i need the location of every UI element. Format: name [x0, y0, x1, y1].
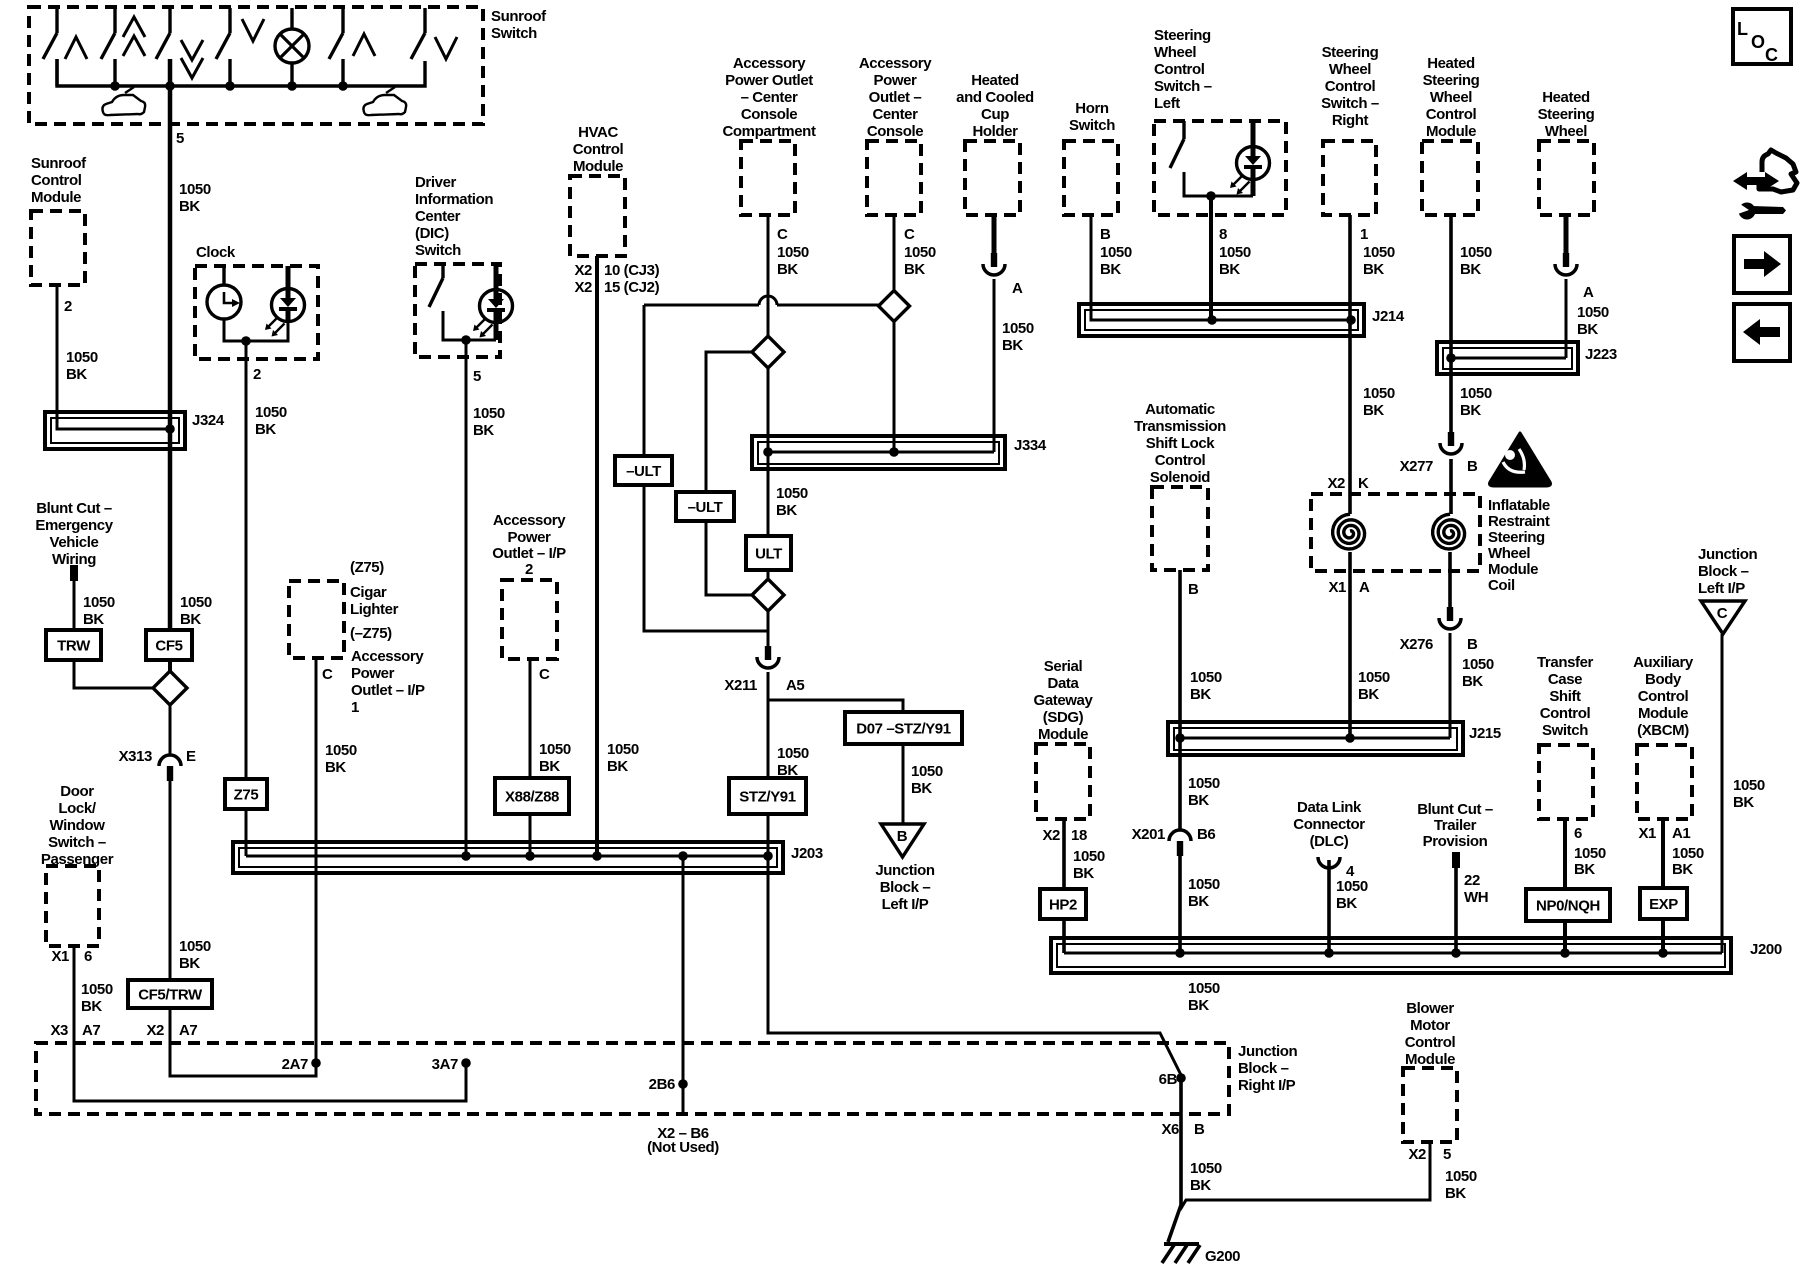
wire - horn switch to J214	[1091, 215, 1352, 320]
svg-text:BK: BK	[180, 611, 201, 628]
svg-text:BK: BK	[179, 955, 200, 972]
svg-text:Control: Control	[1426, 106, 1477, 123]
svg-text:15 (CJ2): 15 (CJ2)	[604, 279, 660, 296]
wire - SWCS right through J214 to coil	[1348, 215, 1352, 514]
svg-text:BK: BK	[1002, 337, 1023, 354]
svg-text:C: C	[1717, 605, 1728, 622]
wire - SWCS left pin 8 to J214	[1209, 196, 1213, 320]
cigar lighter dashed box	[289, 581, 344, 658]
DIC switch contact	[441, 264, 444, 278]
svg-text:X1: X1	[1638, 825, 1656, 842]
svg-text:Control: Control	[1540, 705, 1591, 722]
svg-text:B: B	[897, 828, 908, 845]
svg-text:(SDG): (SDG)	[1043, 709, 1084, 726]
svg-text:22: 22	[1464, 872, 1480, 889]
svg-text:5: 5	[473, 368, 481, 385]
svg-text:Blunt Cut –: Blunt Cut –	[36, 500, 112, 517]
svg-text:C: C	[904, 226, 915, 243]
svg-text:Outlet – I/P: Outlet – I/P	[492, 545, 566, 562]
svg-text:Switch: Switch	[491, 25, 537, 42]
svg-text:Control: Control	[1638, 688, 1689, 705]
SDG dashed box	[1036, 744, 1090, 819]
fuse label -ULT lower	[676, 492, 734, 521]
svg-text:Console: Console	[741, 106, 797, 123]
svg-text:Block –: Block –	[880, 879, 931, 896]
svg-text:C: C	[539, 666, 550, 683]
svg-text:X201: X201	[1132, 826, 1165, 843]
wire - DIC switch pin 5 down to J203	[465, 340, 468, 856]
svg-text:Power: Power	[873, 72, 917, 89]
svg-text:2: 2	[525, 561, 533, 578]
svg-text:Junction: Junction	[875, 862, 935, 879]
LOC reference box	[1733, 9, 1791, 64]
svg-text:O: O	[1751, 32, 1765, 52]
svg-text:–ULT: –ULT	[626, 463, 661, 480]
svg-text:Heated: Heated	[971, 72, 1019, 89]
wire - X313 to CF5/TRW fuse	[169, 781, 172, 980]
wire - blower module to ground wire	[1180, 1142, 1430, 1210]
svg-text:C: C	[322, 666, 333, 683]
J334 junction dots	[763, 447, 773, 457]
svg-text:J200: J200	[1750, 941, 1782, 958]
J200 junction dots	[1175, 948, 1185, 958]
DIC internal junction dot	[461, 335, 471, 345]
wire - SDG to HP2	[1062, 819, 1066, 889]
svg-text:1050: 1050	[1190, 669, 1222, 686]
svg-text:Center: Center	[872, 106, 918, 123]
right clockspring coil	[1433, 514, 1465, 549]
connector X276	[1447, 607, 1453, 621]
svg-text:(Z75): (Z75)	[350, 559, 384, 576]
wire - CF5/TRW into junction block to 2A7	[170, 1008, 316, 1076]
wire - transfer case to NP0/NQH	[1563, 819, 1567, 889]
wire - diamond to ULT	[767, 368, 770, 452]
heated steering wheel dashed box	[1539, 141, 1594, 215]
J214 junction dots	[1207, 315, 1217, 325]
svg-text:Horn: Horn	[1075, 100, 1109, 117]
wire - right coil to X276	[1448, 552, 1452, 607]
svg-text:Switch: Switch	[1542, 722, 1588, 739]
junction block left I/P triangle C	[1701, 601, 1745, 634]
svg-text:A: A	[1012, 280, 1023, 297]
splice diamond - acc outlet CCC	[752, 336, 784, 368]
svg-text:EXP: EXP	[1649, 896, 1678, 913]
svg-text:Transmission: Transmission	[1134, 418, 1226, 435]
wire - solenoid to J215	[1178, 570, 1182, 738]
svg-text:J203: J203	[791, 845, 823, 862]
svg-text:X6: X6	[1161, 1121, 1179, 1138]
sunroof switch internal bus wire	[57, 59, 425, 86]
svg-text:1050: 1050	[1577, 304, 1609, 321]
svg-text:1050: 1050	[179, 938, 211, 955]
svg-text:Accessory: Accessory	[493, 512, 566, 529]
svg-text:1050: 1050	[777, 745, 809, 762]
svg-text:X1: X1	[1328, 579, 1346, 596]
svg-text:Control: Control	[1154, 61, 1205, 78]
chevron up 5	[353, 34, 375, 56]
chevron down 4	[242, 19, 264, 41]
XBCM dashed box	[1637, 745, 1692, 819]
door lock dashed box	[46, 866, 99, 946]
svg-text:BK: BK	[1190, 1177, 1211, 1194]
svg-text:STZ/Y91: STZ/Y91	[739, 789, 795, 806]
ATSLCS dashed box	[1152, 487, 1208, 570]
svg-text:K: K	[1358, 475, 1369, 492]
ground symbol G200	[1164, 1242, 1199, 1246]
connector J203	[233, 842, 783, 873]
svg-text:1050: 1050	[911, 763, 943, 780]
svg-text:D07 –STZ/Y91: D07 –STZ/Y91	[856, 721, 950, 738]
HSWCM dashed box	[1422, 141, 1478, 215]
svg-text:Cup: Cup	[981, 106, 1009, 123]
svg-text:Provision: Provision	[1423, 833, 1488, 850]
fuse label STZ/Y91	[729, 778, 806, 814]
svg-text:B: B	[1467, 636, 1478, 653]
svg-text:BK: BK	[607, 758, 628, 775]
clock dashed box	[195, 266, 318, 359]
svg-text:BK: BK	[776, 502, 797, 519]
sunroof switch dashed box	[29, 7, 483, 124]
connector J324	[45, 412, 185, 449]
svg-text:Control: Control	[1325, 78, 1376, 95]
svg-text:18: 18	[1071, 827, 1087, 844]
connector X313 pin E	[159, 755, 181, 766]
svg-text:E: E	[186, 748, 196, 765]
SWCS left dashed box	[1154, 121, 1286, 215]
cup holder dashed box	[965, 141, 1020, 215]
wire - X211 down and branch	[767, 672, 770, 779]
switch contact 5	[341, 8, 344, 33]
wire - CF5 to splice diamond	[168, 660, 172, 671]
clock symbol	[207, 285, 241, 319]
2A7 pin dot and label	[311, 1058, 321, 1068]
wire - sunroof control module to J324	[57, 285, 170, 429]
prev-page arrow box	[1734, 304, 1790, 361]
svg-text:Information: Information	[415, 191, 493, 208]
svg-text:Blower: Blower	[1406, 1000, 1454, 1017]
svg-text:Vehicle: Vehicle	[50, 534, 99, 551]
car icon left	[102, 95, 145, 115]
svg-text:BK: BK	[255, 421, 276, 438]
switch contact 6	[423, 8, 426, 33]
sunroof control module dashed box	[31, 211, 85, 285]
splice diamond CF5/TRW	[153, 671, 187, 705]
svg-text:Compartment: Compartment	[722, 123, 816, 140]
svg-text:BK: BK	[911, 780, 932, 797]
3A7 pin dot and label	[461, 1058, 471, 1068]
fuse label CF5/TRW	[128, 980, 212, 1008]
double chevron up	[123, 17, 145, 37]
fuse label Z75	[225, 779, 267, 809]
svg-text:CF5: CF5	[155, 638, 182, 655]
svg-text:Steering: Steering	[1154, 27, 1211, 44]
svg-text:2: 2	[64, 298, 72, 315]
svg-text:1050: 1050	[1733, 777, 1765, 794]
fuse label EXP	[1640, 888, 1687, 919]
fuse label NP0/NQH	[1526, 889, 1610, 921]
svg-text:Z75: Z75	[234, 787, 259, 804]
svg-text:Heated: Heated	[1427, 55, 1475, 72]
svg-text:Power: Power	[507, 529, 551, 546]
svg-text:Lock/: Lock/	[58, 800, 96, 817]
svg-text:BK: BK	[1460, 261, 1481, 278]
svg-text:Sunroof: Sunroof	[31, 155, 87, 172]
wire - blunt cut to TRW	[73, 581, 76, 630]
svg-text:1050: 1050	[1460, 244, 1492, 261]
svg-text:2B6: 2B6	[649, 1076, 675, 1093]
wire - X277 to right coil	[1449, 459, 1453, 514]
svg-text:BK: BK	[1188, 997, 1209, 1014]
fuse label TRW	[46, 630, 101, 660]
svg-text:1050: 1050	[66, 349, 98, 366]
svg-text:Module: Module	[1426, 123, 1476, 140]
svg-text:BK: BK	[66, 366, 87, 383]
wire - acc outlet CC to diamond splice	[893, 215, 896, 291]
svg-text:1050: 1050	[180, 594, 212, 611]
svg-text:Module: Module	[1038, 726, 1088, 743]
connector J214	[1079, 304, 1364, 336]
wire - diamond 2 to X211	[767, 611, 770, 646]
svg-text:1050: 1050	[1188, 980, 1220, 997]
SWCS left internal junction dot	[1206, 191, 1216, 201]
2B6 pin dot and label	[678, 1079, 688, 1089]
svg-text:A7: A7	[179, 1022, 197, 1039]
svg-text:Left: Left	[1154, 95, 1180, 112]
svg-text:8: 8	[1219, 226, 1227, 243]
connector J215	[1168, 722, 1463, 755]
wire - trailer provision to J200	[1454, 868, 1458, 953]
wire - TRW to splice diamond	[74, 660, 153, 688]
J223 internal bus wire	[1451, 357, 1566, 360]
svg-text:A5: A5	[786, 677, 804, 694]
svg-text:BK: BK	[1460, 402, 1481, 419]
switch contact 3	[168, 8, 171, 33]
splice diamond - acc outlet center console	[879, 291, 910, 322]
svg-text:Outlet – I/P: Outlet – I/P	[351, 682, 425, 699]
svg-text:1050: 1050	[1462, 656, 1494, 673]
svg-text:Lighter: Lighter	[350, 601, 399, 618]
horn switch dashed box	[1064, 141, 1118, 215]
svg-text:A: A	[1583, 284, 1594, 301]
HVAC control module dashed box	[570, 176, 625, 256]
transfer case dashed box	[1539, 745, 1593, 819]
svg-text:J334: J334	[1014, 437, 1047, 454]
svg-text:Data: Data	[1048, 675, 1080, 692]
svg-text:1050: 1050	[1672, 845, 1704, 862]
J215 internal bus wire	[1180, 737, 1450, 740]
svg-text:Emergency: Emergency	[35, 517, 113, 534]
svg-text:1050: 1050	[1188, 775, 1220, 792]
wire - 6B to ground G200	[1168, 1075, 1181, 1242]
svg-text:1050: 1050	[1100, 244, 1132, 261]
svg-text:– Center: – Center	[741, 89, 798, 106]
svg-text:1050: 1050	[81, 981, 113, 998]
svg-text:(DLC): (DLC)	[1310, 833, 1349, 850]
wire - XBCM to EXP	[1661, 819, 1665, 888]
svg-text:BK: BK	[1336, 895, 1357, 912]
svg-text:3A7: 3A7	[432, 1056, 458, 1073]
wire - outlet IP2 to X88/Z88	[529, 659, 532, 778]
svg-text:BK: BK	[539, 758, 560, 775]
svg-text:C: C	[1765, 45, 1778, 65]
svg-text:BK: BK	[325, 759, 346, 776]
svg-text:X2: X2	[146, 1022, 164, 1039]
vehicle arrows and wrench icon	[1733, 172, 1779, 190]
svg-text:Console: Console	[867, 123, 923, 140]
svg-text:BK: BK	[1445, 1185, 1466, 1202]
svg-text:2A7: 2A7	[282, 1056, 308, 1073]
svg-text:6B: 6B	[1159, 1071, 1178, 1088]
J334 internal bus wire	[765, 451, 994, 454]
wire - X201 to J200	[1178, 856, 1182, 953]
svg-text:G200: G200	[1205, 1248, 1240, 1265]
SWCS left LED	[1237, 147, 1270, 180]
svg-text:X313: X313	[119, 748, 152, 765]
svg-text:1050: 1050	[904, 244, 936, 261]
svg-text:1050: 1050	[179, 181, 211, 198]
svg-text:X2: X2	[1408, 1146, 1426, 1163]
svg-text:X277: X277	[1400, 458, 1433, 475]
svg-text:6: 6	[1574, 825, 1582, 842]
svg-text:X2: X2	[574, 262, 592, 279]
chevron down 6	[435, 37, 457, 59]
svg-text:1050: 1050	[607, 741, 639, 758]
wire - HSW pin A	[1564, 215, 1569, 253]
wire - D07 to junction block left IP triangle B	[902, 744, 905, 824]
svg-text:Coil: Coil	[1488, 577, 1515, 594]
svg-text:Power: Power	[351, 665, 395, 682]
fuse label -ULT upper	[615, 456, 672, 485]
svg-text:Solenoid: Solenoid	[1150, 469, 1210, 486]
connector A of cup holder	[991, 253, 997, 267]
svg-text:1050: 1050	[83, 594, 115, 611]
svg-text:Right: Right	[1332, 112, 1369, 129]
svg-text:Steering: Steering	[1488, 529, 1545, 546]
svg-text:X88/Z88: X88/Z88	[505, 789, 559, 806]
svg-text:A7: A7	[82, 1022, 100, 1039]
svg-text:Transfer: Transfer	[1537, 654, 1594, 671]
svg-text:Serial: Serial	[1044, 658, 1083, 675]
wire - diamond to J334	[893, 321, 896, 452]
blower dashed box	[1403, 1068, 1457, 1142]
svg-text:J214: J214	[1372, 308, 1405, 325]
svg-text:J223: J223	[1585, 346, 1617, 363]
svg-text:Body: Body	[1645, 671, 1682, 688]
svg-text:WH: WH	[1464, 889, 1488, 906]
junction dot J324	[165, 424, 175, 434]
svg-text:Case: Case	[1548, 671, 1582, 688]
J223 junction dot	[1446, 353, 1456, 363]
svg-text:C: C	[777, 226, 788, 243]
svg-text:5: 5	[1443, 1146, 1451, 1163]
svg-text:BK: BK	[1188, 893, 1209, 910]
svg-text:1050: 1050	[1574, 845, 1606, 862]
wire - coil X1-A to J215	[1348, 552, 1352, 738]
connector J334	[752, 436, 1005, 469]
svg-text:1050: 1050	[1336, 878, 1368, 895]
svg-text:Auxiliary: Auxiliary	[1633, 654, 1694, 671]
svg-text:1050: 1050	[325, 742, 357, 759]
svg-text:BK: BK	[83, 611, 104, 628]
fuse label D07 -STZ/Y91	[845, 712, 962, 744]
svg-text:Connector: Connector	[1293, 816, 1365, 833]
wire - diamond left branch to -ULT	[706, 352, 752, 492]
junction block right I/P dashed box	[36, 1043, 1229, 1114]
svg-text:Driver: Driver	[415, 174, 457, 191]
wire - cup holder pin A	[992, 215, 997, 253]
svg-text:BK: BK	[904, 261, 925, 278]
connector X211 pin A5	[765, 646, 771, 660]
svg-text:10 (CJ3): 10 (CJ3)	[604, 262, 660, 279]
wire - J203 down across to 6B	[768, 856, 1181, 1075]
wire - HSW to J223	[1565, 279, 1568, 358]
svg-text:BK: BK	[473, 422, 494, 439]
lamp	[275, 29, 309, 63]
SWCS right dashed box	[1323, 141, 1376, 215]
svg-text:Heated: Heated	[1542, 89, 1590, 106]
svg-text:1050: 1050	[1363, 244, 1395, 261]
svg-text:BK: BK	[1577, 321, 1598, 338]
svg-text:BK: BK	[1188, 792, 1209, 809]
wire - horizontal branch with hop	[644, 304, 759, 307]
connector A of heated steering wheel	[1563, 253, 1569, 267]
fuse label CF5	[146, 630, 192, 660]
svg-text:2: 2	[253, 366, 261, 383]
svg-text:B: B	[1194, 1121, 1205, 1138]
svg-text:BK: BK	[1358, 686, 1379, 703]
svg-text:Wheel: Wheel	[1329, 61, 1371, 78]
acc power outlet CCC dashed box	[741, 141, 795, 215]
svg-text:BK: BK	[1190, 686, 1211, 703]
svg-text:X2: X2	[1042, 827, 1060, 844]
connector J223	[1437, 342, 1578, 374]
chevron up 1	[65, 37, 87, 59]
svg-text:Switch –: Switch –	[1154, 78, 1212, 95]
svg-text:BK: BK	[1219, 261, 1240, 278]
svg-text:Block –: Block –	[1698, 563, 1749, 580]
switch contact 1	[55, 8, 58, 33]
svg-text:Motor: Motor	[1410, 1017, 1450, 1034]
wire - diamond to X313	[169, 705, 172, 755]
svg-text:Steering: Steering	[1538, 106, 1595, 123]
wire - cup holder to J334	[993, 279, 996, 452]
svg-text:Sunroof: Sunroof	[491, 8, 547, 25]
clock LED	[272, 289, 305, 322]
svg-text:Holder: Holder	[972, 123, 1018, 140]
svg-text:X2: X2	[1327, 475, 1345, 492]
svg-text:B: B	[1467, 458, 1478, 475]
wire - HP2 to J200	[1062, 919, 1066, 953]
wire - NP0/NQH to J200	[1563, 921, 1567, 953]
J215 junction dots	[1175, 733, 1185, 743]
svg-text:Right I/P: Right I/P	[1238, 1077, 1296, 1094]
svg-text:Left I/P: Left I/P	[882, 896, 929, 913]
J203 internal bus wire	[246, 855, 768, 858]
svg-text:Control: Control	[573, 141, 624, 158]
svg-text:Shift Lock: Shift Lock	[1146, 435, 1216, 452]
svg-text:1050: 1050	[1188, 876, 1220, 893]
svg-text:X1: X1	[51, 948, 69, 965]
svg-text:A: A	[1359, 579, 1370, 596]
svg-text:Door: Door	[60, 783, 94, 800]
svg-text:Control: Control	[1155, 452, 1206, 469]
svg-text:BK: BK	[777, 261, 798, 278]
wire - triangle C to J200	[1721, 634, 1724, 953]
svg-text:Wheel: Wheel	[1545, 123, 1587, 140]
svg-text:L: L	[1737, 19, 1748, 39]
svg-text:(DIC): (DIC)	[415, 225, 449, 242]
wire - Z75 to J203	[245, 809, 248, 856]
